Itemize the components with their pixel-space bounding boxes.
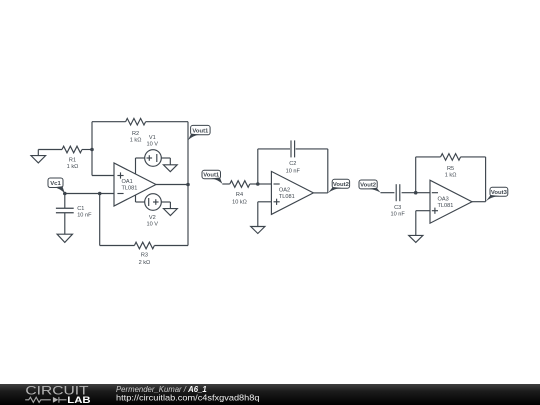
svg-text:LAB: LAB xyxy=(67,395,91,405)
svg-text:TL081: TL081 xyxy=(279,194,295,200)
svg-text:1 kΩ: 1 kΩ xyxy=(445,173,457,179)
svg-text:2 kΩ: 2 kΩ xyxy=(139,260,151,266)
svg-text:Vout2: Vout2 xyxy=(333,182,350,188)
svg-text:TL081: TL081 xyxy=(122,186,138,192)
svg-text:http://circuitlab.com/c4sfxgva: http://circuitlab.com/c4sfxgvad8h8q xyxy=(116,394,260,403)
svg-text:R5: R5 xyxy=(447,166,454,172)
svg-text:C3: C3 xyxy=(394,205,401,211)
svg-text:10 nF: 10 nF xyxy=(286,168,301,174)
svg-text:10 V: 10 V xyxy=(147,142,159,148)
svg-text:R4: R4 xyxy=(236,192,243,198)
svg-text:OA3: OA3 xyxy=(438,196,449,202)
svg-text:1 kΩ: 1 kΩ xyxy=(67,164,79,170)
svg-text:C1: C1 xyxy=(77,206,84,212)
svg-text:V1: V1 xyxy=(149,135,156,141)
svg-text:Vout1: Vout1 xyxy=(203,172,220,178)
svg-text:R3: R3 xyxy=(141,253,148,259)
svg-text:1 kΩ: 1 kΩ xyxy=(130,137,142,143)
svg-text:C2: C2 xyxy=(289,161,296,167)
svg-text:10 nF: 10 nF xyxy=(77,212,92,218)
svg-text:R1: R1 xyxy=(69,157,76,163)
svg-text:Vout2: Vout2 xyxy=(360,182,377,188)
svg-text:R2: R2 xyxy=(132,131,139,137)
svg-text:10 nF: 10 nF xyxy=(391,212,406,218)
svg-text:V2: V2 xyxy=(149,215,156,221)
svg-text:TL081: TL081 xyxy=(438,203,454,209)
svg-text:Vc1: Vc1 xyxy=(50,181,61,187)
svg-text:10 V: 10 V xyxy=(147,221,159,227)
svg-text:10 kΩ: 10 kΩ xyxy=(232,200,247,206)
svg-text:OA1: OA1 xyxy=(122,179,133,185)
svg-text:OA2: OA2 xyxy=(279,188,290,194)
svg-text:Vout1: Vout1 xyxy=(192,128,209,134)
svg-text:Vout3: Vout3 xyxy=(491,190,508,196)
